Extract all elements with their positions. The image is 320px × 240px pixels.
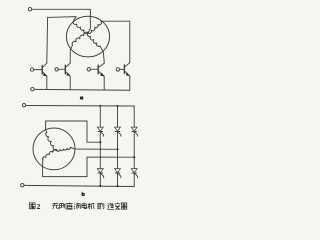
transistor Q1 [30,63,47,89]
node star hub [56,149,58,151]
wire top rail to motor center tap [32,9,91,32]
terminal DC+ (top left) [28,8,31,11]
terminal DC+ (top) [22,104,25,107]
winding SW [43,149,57,159]
label a [81,97,83,100]
thyristor V6 bottom [131,169,137,187]
caption char 图 [29,203,35,209]
wire winding N to V1 midpoint [46,121,101,142]
terminal DC- (bottom) [21,184,24,187]
junction dot phase-V3 [133,156,135,158]
caption char 刷 [60,203,66,209]
junction dot rail-V5 [116,185,118,187]
winding NW [73,21,88,34]
junction dot rail-V4 [99,185,101,187]
thyristor V5 bottom [115,169,121,187]
label b [82,192,84,196]
winding E [57,147,71,151]
caption char 直 [66,203,72,210]
junction dot phase-V2 [116,148,118,150]
winding N [46,132,57,150]
transistor Q2 [55,63,71,90]
transistor Q3 [87,63,104,90]
caption char 无 [52,203,59,209]
caption char 电 [82,203,87,209]
winding SE [87,33,100,47]
transistor Q4 [116,63,130,91]
wire winding SE to Q3 collector [100,46,104,63]
wire winding SW to Q2 collector [70,45,72,63]
junction dot phase-V1 [99,141,101,143]
caption char 器 [121,203,127,209]
junction dot rail-V2 [116,105,118,107]
bottom rail wire [24,185,134,186]
svg-text:2: 2 [37,202,41,211]
thyristor V3 top [131,127,137,169]
wire winding SW to V3 midpoint [43,157,135,177]
wire winding NW to Q1 collector [47,17,76,64]
thyristor V2 top [115,106,121,169]
motor stator circle M2 [33,128,75,170]
thyristor V1 top [97,106,103,169]
motor stator circle M1 [66,16,109,57]
wire winding E to V2 midpoint [71,147,118,149]
caption char 流 [74,203,81,209]
caption char 机 [88,203,95,210]
caption char 逆 [107,203,114,210]
winding SW [72,32,88,45]
top rail wire [26,106,134,128]
wire winding NE to Q4 collector [101,21,130,62]
terminal DC- (bottom left) [31,88,34,91]
bottom rail wire [34,88,130,91]
caption char 的 [98,203,104,209]
junction dot rail-V1 [99,105,101,107]
node center-tap hub [87,32,89,34]
winding NE [88,22,102,34]
caption char 变 [115,203,121,210]
thyristor V4 bottom [97,169,103,186]
